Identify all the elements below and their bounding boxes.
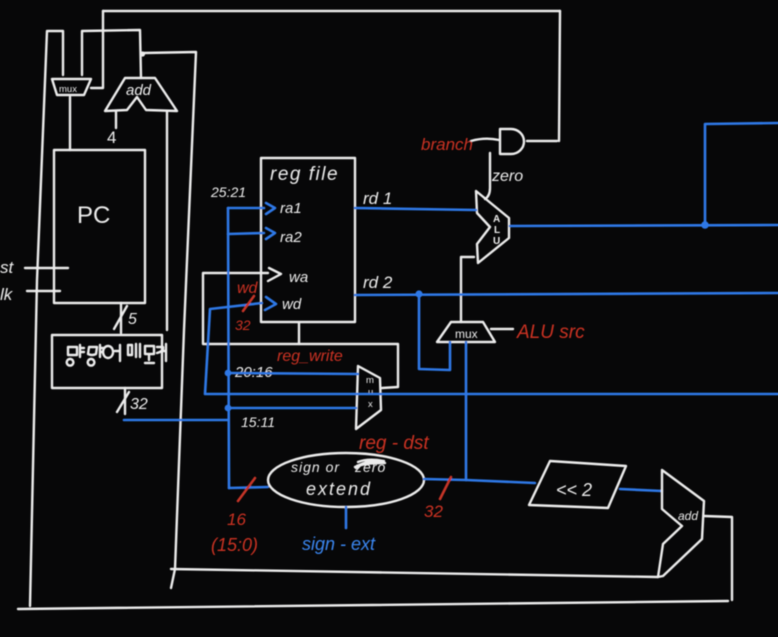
- svg-text:32: 32: [235, 317, 251, 333]
- wire: PC output to instruction memory: [120, 303, 122, 333]
- wire: AND output up to top rail: [559, 11, 560, 141]
- svg-text:rd 1: rd 1: [363, 189, 392, 208]
- wire: clk input: [27, 290, 60, 292]
- svg-text:U: U: [493, 236, 500, 247]
- wire: sign-ext stub down: [345, 507, 348, 528]
- svg-text:mux: mux: [59, 84, 77, 95]
- svg-text:add: add: [126, 82, 152, 99]
- wire: PC+4 rail to branch adder: [171, 569, 658, 577]
- node junction 20:16: [225, 370, 232, 377]
- svg-text:ALU src: ALU src: [516, 322, 585, 343]
- wire: extend output to shift left 2: [424, 479, 535, 483]
- svg-text:u: u: [368, 387, 373, 398]
- svg-text:L: L: [494, 225, 500, 236]
- wire: ALU result bus: [510, 225, 778, 226]
- width slash wd (red): [243, 296, 254, 311]
- svg-text:wd: wd: [237, 280, 259, 297]
- wire: ALU result up and to right edge: [705, 123, 778, 225]
- svg-text:sign or: sign or: [291, 459, 340, 475]
- label instruction memory (Hangul approximated): [67, 344, 166, 366]
- node junction ALU result: [701, 221, 709, 229]
- svg-text:(15:0): (15:0): [211, 535, 258, 555]
- wire: ALUsrc mux output up to ALU input: [461, 257, 474, 322]
- svg-text:reg_write: reg_write: [277, 348, 343, 365]
- width slash 32: [117, 392, 129, 412]
- width slash 16 (red): [238, 478, 255, 501]
- svg-text:zero: zero: [491, 168, 523, 185]
- adder ADD2 branch target: [658, 470, 704, 577]
- svg-text:PC: PC: [77, 202, 110, 229]
- shifter <<2 parallelogram: [529, 461, 626, 508]
- mux ALUsrc trapezoid: [437, 322, 495, 342]
- wire: rd2 long bus to right edge: [355, 293, 778, 295]
- svg-text:extend: extend: [306, 479, 372, 499]
- wire: next-PC top rail: [103, 10, 560, 12]
- svg-text:15:11: 15:11: [241, 414, 275, 430]
- wire: instruction bus vertical: [228, 208, 229, 488]
- wire: mux output to PC: [69, 97, 71, 150]
- wire: sign-ext value up into ALUsrc mux: [465, 342, 468, 480]
- wire: constant 4 input: [115, 111, 117, 128]
- width slash 32 (red): [440, 477, 451, 499]
- wire: wa path from reg-dst mux output: [203, 273, 398, 388]
- wire: ra1 input: [228, 207, 264, 210]
- instruction memory box: [52, 335, 162, 388]
- svg-text:reg - dst: reg - dst: [359, 433, 429, 454]
- wire: branch adder output down to bottom rail: [704, 516, 732, 600]
- wire: instruction from memory: [124, 419, 228, 422]
- wire: ra2 input: [228, 233, 264, 234]
- svg-text:A: A: [493, 214, 500, 225]
- mux reg-dst: [356, 366, 381, 429]
- wire: instruction output stub: [124, 388, 126, 414]
- wire: AND gate output: [527, 140, 557, 142]
- node junction rd2/ALUsrc: [415, 290, 422, 297]
- svg-text:32: 32: [424, 502, 443, 521]
- node: adder output junction: [140, 51, 145, 56]
- scribble over zero: [355, 460, 385, 468]
- AND gate (branch & zero): [500, 129, 524, 154]
- svg-text:add: add: [678, 509, 698, 523]
- wire: PC+4 into mux right input: [82, 30, 141, 78]
- wire: wd write-back return from right edge: [205, 303, 778, 394]
- wire: branch input to AND gate: [471, 139, 499, 141]
- svg-text:rd 2: rd 2: [363, 273, 393, 292]
- wire: low field into sign extend: [229, 487, 268, 488]
- register PC: [54, 150, 145, 303]
- svg-text:lk: lk: [0, 285, 14, 304]
- wire: PC value tap down to instruction-memory wire: [166, 111, 168, 330]
- wire: bottom feedback rail: [18, 601, 728, 609]
- width slash 5: [114, 306, 127, 329]
- svg-text:st: st: [0, 258, 15, 277]
- wire: mux select from top rail: [91, 11, 103, 88]
- node junction 15:11: [225, 405, 232, 412]
- wire: tick to ALUsrc label: [491, 328, 513, 330]
- ellipse sign/zero extend: [268, 453, 424, 507]
- wire: 20:16 field to reg-dst mux: [228, 373, 358, 374]
- svg-text:4: 4: [107, 128, 116, 147]
- wire: reg_write stub below reg file: [298, 323, 300, 344]
- wire: rst input: [25, 267, 68, 269]
- wire: PC+4 to long right vertical and bottom rail: [143, 52, 196, 588]
- wire: rd2 down into ALUsrc mux: [419, 294, 450, 370]
- op-amp style ALU U1: [476, 191, 509, 263]
- wire: zero from ALU to AND gate: [485, 153, 490, 199]
- wd arrowhead: [265, 297, 276, 310]
- svg-text:wa: wa: [289, 269, 308, 286]
- wire: 15:11 field to reg-dst mux: [228, 407, 356, 410]
- svg-text:x: x: [368, 399, 373, 410]
- svg-text:mux: mux: [455, 327, 478, 341]
- wire: left feedback border up to PC mux: [30, 31, 47, 606]
- svg-text:ra2: ra2: [280, 229, 302, 246]
- svg-text:ra1: ra1: [280, 200, 302, 217]
- wire: shifted value to branch adder: [620, 489, 662, 491]
- svg-text:16: 16: [227, 510, 246, 529]
- svg-text:wd: wd: [282, 296, 302, 313]
- svg-text:5: 5: [128, 311, 137, 328]
- register file box: [261, 158, 355, 322]
- svg-text:reg file: reg file: [270, 164, 339, 185]
- wire: rd1 to ALU: [355, 208, 476, 210]
- wa arrowhead: [268, 268, 281, 281]
- svg-text:branch: branch: [421, 135, 473, 154]
- mux M1 PC-source trapezoid: [52, 79, 91, 95]
- adder ADD1 (PC+4): [105, 78, 177, 111]
- svg-text:m: m: [366, 375, 374, 386]
- wire: mux left input from bottom feedback rail: [48, 31, 63, 75]
- svg-text:<< 2: << 2: [556, 480, 592, 500]
- svg-text:sign - ext: sign - ext: [302, 534, 376, 554]
- svg-text:25:21: 25:21: [210, 184, 246, 200]
- svg-text:32: 32: [130, 396, 148, 413]
